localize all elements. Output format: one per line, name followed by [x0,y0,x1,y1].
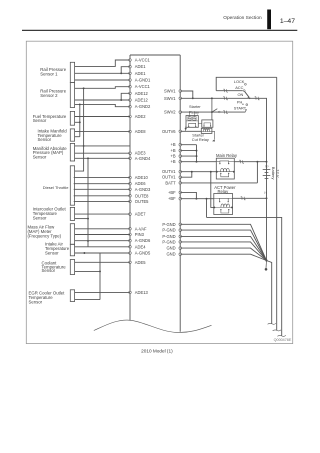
label START [234,105,247,110]
switch arm [245,91,250,98]
svg-text:ADE12: ADE12 [135,91,149,96]
wire intake air signal to ADE4 [75,246,130,248]
ECU pin ADE2 (left, y=116.5) [129,114,146,119]
svg-text:A-GND4: A-GND4 [135,156,151,161]
svg-text:PIN3: PIN3 [135,232,145,237]
ground bus V6 [99,253,101,300]
ECU pin A-GND1 (left, y=80.0) [129,78,151,83]
wire diesel throttle 2 [74,183,130,185]
ECU pin +BF (right, y=198.7) [168,196,181,201]
battery B1 plates [263,170,271,179]
ECU pin ADE12 (left, y=93.3) [129,91,149,96]
ECU pin A-GND6 (left, y=240.7) [129,238,151,243]
svg-text:ADE8: ADE8 [135,129,146,134]
svg-text:ADE6: ADE6 [135,181,146,186]
cut relay coil [201,129,212,132]
svg-text:Sensor: Sensor [45,250,59,255]
junction V2 fuel temp ground [79,121,81,123]
svg-text:P-GND: P-GND [162,239,175,244]
battery plus label [265,164,269,168]
ECU pin OUTV1 (right, y=177.2) [162,175,182,180]
label ACC [235,85,243,90]
ground junction point [265,259,267,261]
wire diesel throttle 4 [74,195,130,197]
wire RP2 signal to ADE12 pins [75,99,130,101]
wire BATT riser [256,162,258,183]
wire +B stub y=144.7 [180,144,196,146]
ECU pin +B (right, y=144.7) [170,142,181,147]
header rule [22,29,297,31]
wire RP1 signal to ADE1 pins [75,72,130,74]
wire ground y=254.2 [180,254,266,260]
svg-text:ADE13: ADE13 [135,290,149,295]
wire ground y=241.9 [180,242,266,261]
junction +BF [195,198,197,200]
wire ON to battery trunk [251,97,267,162]
svg-text:P-GND: P-GND [162,228,175,233]
svg-text:Sensor: Sensor [42,268,56,273]
junction on A-GND5 wire [83,252,85,254]
svg-text:ADE7: ADE7 [135,212,146,217]
junction V6 coolant ground [99,270,101,272]
wire ACC feed with connector [216,89,243,92]
cut relay coil ground arrow [212,139,215,141]
ECU pin OUTV6 (right, y=131.3) [162,129,182,134]
EGR cooler outlet temp sensor connector [70,290,74,302]
wire +B stub y=150.6 [180,150,196,152]
contact ON [249,98,251,100]
svg-text:+B: +B [170,154,175,159]
svg-text:LOCK: LOCK [234,79,245,84]
ECU box right edge [179,55,181,332]
svg-text:A-GND5: A-GND5 [135,251,151,256]
ECU pin +B (right, y=150.6) [170,148,181,153]
ECU pin A-VCC1 (left, y=86.7) [129,84,151,89]
svg-text:Q000478E: Q000478E [274,338,292,342]
ECU pin ADE5 (left, y=262.3) [129,260,146,265]
starter relay coil b [193,117,196,121]
header page number 1-47 [280,18,295,25]
wire +BF upper jog [180,192,196,198]
svg-text:ADE4: ADE4 [135,244,146,249]
svg-text:P-GND: P-GND [162,222,175,227]
ECU pin +B (right, y=161.7) [170,159,181,164]
analog ground bus V2 [79,104,81,136]
ECU pin ADE10 (left, y=177.6) [129,175,149,180]
wire +BF lower [180,198,214,200]
ECU pin A-VAF (left, y=228.8) [129,226,147,231]
label Starter Cut Relay [192,133,209,142]
svg-text:ADE10: ADE10 [135,175,149,180]
svg-text:ADE12: ADE12 [135,98,149,103]
ECU pin +B (right, y=156.1) [170,154,181,159]
fuel temperature sensor connector [70,111,74,125]
diagram cut wavy line [94,320,212,332]
svg-text:(+): (+) [265,164,269,168]
wire OUTV1 lower jog [180,172,192,178]
wire main relay output [234,160,266,163]
wire EGR signal to ADE13 [75,291,130,293]
sensor ground bus V5 [87,158,89,247]
ECU pin A-GND3 (left, y=189.3) [129,187,151,192]
ECU pin BATT (right, y=182.9) [165,180,181,185]
wire RP1 supply to A-VCC1 [75,60,130,66]
svg-text:P-GND: P-GND [162,234,175,239]
svg-text:1–47: 1–47 [280,18,295,25]
starter switch blade [212,109,220,113]
battery minus label [264,190,267,194]
ignition switch frame [216,77,277,90]
caption 2010 Model (1) [141,348,173,353]
wire SWV2 to START [180,111,245,114]
svg-text:Cut Relay: Cut Relay [192,137,209,142]
ECU pin GND (right, y=248.1) [166,246,181,251]
starter relay contact [188,123,196,127]
wire intake air ground to A-GND5 [75,252,130,254]
starter cut relay coil box [201,128,212,133]
ECU pin P-GND (right, y=230.1) [162,228,181,233]
svg-text:A-GND1: A-GND1 [135,78,151,83]
svg-text:GND: GND [166,252,175,257]
wire RP2 supply to A-VCC1 [75,87,130,89]
junction +B bus y=156.1 [196,155,198,157]
svg-text:OUTV6: OUTV6 [162,129,176,134]
wire MAP signal to ADE3 [75,152,130,154]
ECU pin A-GND4 (left, y=158.3) [129,156,151,161]
wire +B stub y=161.7 [180,161,196,163]
svg-text:ADE2: ADE2 [135,114,146,119]
wire OUTV6 branch [185,126,187,131]
label Manifold Absolute Pressure (MAP) Sensor [33,146,68,160]
ECU pin A-GND5 (left, y=253.0) [129,251,151,256]
cut relay contact symbol [203,123,211,127]
svg-text:Sensor: Sensor [38,137,52,142]
svg-text:A-VCC1: A-VCC1 [135,84,151,89]
svg-text:OUTV1: OUTV1 [162,169,176,174]
cut tick ground trunk [268,323,276,324]
svg-text:OUTV1: OUTV1 [162,175,176,180]
ECU pin P-GND (right, y=224.3) [162,222,181,227]
intake manifold temp sensor connector [70,129,74,141]
wire cut relay coil out [212,131,215,139]
coolant temp sensor connector [70,260,74,275]
label Rail Pressure Sensor 2 [40,88,66,98]
starter relay coil a [188,117,191,121]
wire ACT output [233,197,267,200]
wire MAF to PIN3 [75,234,130,236]
svg-text:ACC: ACC [235,85,243,90]
label Coolant Temperature Sensor [42,261,67,274]
svg-text:Battery: Battery [271,167,276,180]
wire ACT lower to right [207,217,282,335]
ECU pin ADE8 (left, y=131.6) [129,129,146,134]
ECU pin ADE7 (left, y=214.1) [129,212,146,217]
wire intake manifold signal to ADE8 [75,131,130,133]
svg-text:A-GND6: A-GND6 [135,238,151,243]
main relay K1 box [216,158,234,179]
label Intake Manifold Temperature Sensor [38,128,68,142]
svg-text:OUTE5: OUTE5 [135,199,149,204]
battery name text [271,167,280,180]
wire MAF output to A-VAF [75,228,130,230]
svg-text:SWV1: SWV1 [164,89,176,94]
junction main out / BATT riser [256,161,258,163]
wire ground y=224.3 [180,224,266,260]
MAF meter connector [70,224,74,245]
ECU pin ADE1 (left, y=73.3) [129,71,146,76]
svg-text:(Frequency Type): (Frequency Type) [28,233,62,238]
analog supply bus V1 [75,88,84,171]
starter cut relay contact box [202,120,213,127]
ECU pin OUTE5 (left, y=201.4) [129,199,149,204]
wire MAF ground to A-GND6 [75,240,130,242]
diesel throttle connector [70,166,74,205]
battery trunk wire [266,162,268,261]
svg-text:A-VCC1: A-VCC1 [135,58,151,63]
wire fuel temp signal to ADE2 [75,116,130,118]
ECU box left edge [129,55,131,321]
label Intercooler Outlet Temperature Sensor [33,207,67,221]
MAP sensor connector [70,143,74,161]
label ACT Power Relay [214,185,236,194]
label Diesel Throttle [43,185,69,190]
ACT relay contact [214,198,233,202]
junction V2 top [79,103,81,105]
wire +B stub y=156.1 [180,155,196,157]
svg-text:+B: +B [170,142,175,147]
OUTV1 feed to ACT relay [210,171,214,208]
svg-text:GND: GND [166,246,175,251]
cut tick ACT trunk [277,335,285,336]
svg-text:ADE5: ADE5 [135,260,146,265]
junction +B bus y=150.6 [196,150,198,152]
junction V1 on MAP supply wire [83,145,85,147]
header black bar [267,10,271,30]
wire coolant signal to ADE5 [75,261,130,263]
header text Operation Section [223,15,262,21]
wire RP1 ground to A-GND1 [75,79,130,81]
ECU pin P-GND (right, y=241.9) [162,239,181,244]
svg-text:Sensor: Sensor [33,155,47,160]
svg-text:OUTE8: OUTE8 [135,193,149,198]
ground stub to body [265,261,268,271]
wire ground y=248.1 [180,248,266,260]
diagram border frame [26,41,292,343]
wire intercooler ground stub [75,218,88,220]
junction V5 on A-GND6 wire [87,240,89,242]
junction SWV2 switch [211,111,213,113]
wire ground y=230.1 [180,230,266,260]
svg-text:Sensor: Sensor [33,118,47,123]
wire starter relay to cut relay contact [198,123,202,125]
wire cut relay contact feed [211,97,213,120]
svg-text:+B: +B [170,159,175,164]
label LOCK [234,79,245,84]
ECU pin +BF (right, y=192.4) [168,190,181,195]
label Fuel Temperature Sensor [33,114,67,123]
svg-text:A-VAF: A-VAF [135,226,147,231]
wire branch to upper ADE12 pin [121,93,130,100]
ECU pin ADE3 (left, y=153.2) [129,151,146,156]
wire diesel throttle 5 [74,200,130,202]
label Main Relay [216,153,238,158]
main relay coil lower contact [220,173,229,177]
starter relay U1 box [186,116,198,128]
wire BATT [180,182,257,184]
wire ACT coil lead [206,199,208,218]
ECU pin ADE4 (left, y=246.8) [129,244,146,249]
svg-text:Sensor: Sensor [29,299,43,304]
wire diesel throttle 3 [74,188,130,190]
figure code Q000478E [274,338,292,342]
ECU pin GND (right, y=254.2) [166,252,181,257]
contact START [246,104,248,106]
wire OUTV6 to cut relay coil [180,130,201,132]
+B bus [196,145,198,162]
svg-text:START: START [234,105,247,110]
svg-text:ON: ON [238,92,244,97]
svg-text:A-GND2: A-GND2 [135,104,151,109]
main relay contact [216,161,234,164]
cut tick ignition trunk [273,330,281,331]
ECU pin SWV1 (right, y=98.3) [164,96,181,101]
junction ACT coil lead [206,198,208,200]
ECU pin OUTV1 (right, y=171.7) [162,169,182,174]
junction on ADE1 wire [120,72,122,74]
svg-text:SWV2: SWV2 [164,110,176,115]
svg-text:2010 Model (1): 2010 Model (1) [141,348,173,353]
contact LOCK [245,83,247,85]
starter relay coil feeds [190,112,195,117]
label Starter Relay [189,104,201,114]
wire intake manifold ground stub [75,136,80,138]
wire ground trunk [267,261,272,324]
svg-text:+B: +B [170,148,175,153]
junction V1 top on RP2 supply wire [83,87,85,89]
svg-text:Operation Section: Operation Section [223,15,262,21]
ACT relay coil [213,204,233,208]
wire MAP supply [75,145,130,147]
wire branch to upper ADE1 pin [121,67,130,74]
wire SWV1 jog [180,91,193,98]
wire OUTV1 upper [180,171,216,173]
junction V5 intercooler ground [87,218,89,220]
ECU pin SWV2 (right, y=112.1) [164,110,181,115]
svg-text:+BF: +BF [168,190,176,195]
junction V5 top on A-GND4 wire [87,157,89,159]
junction main out / battery trunk [266,161,268,163]
wire +B bus to main relay [197,161,217,163]
wire ground y=236.4 [180,236,266,260]
ECU pin ADE13 (left, y=292.4) [129,290,149,295]
junction ACT out / battery trunk [266,197,268,199]
label Mass Air Flow (MAF) Meter (Frequency Type) [28,225,62,239]
ACT power relay K2 box [214,194,233,215]
junction OUTV6 branch [185,128,187,130]
label Intake Air Temperature Sensor [45,242,70,256]
rail pressure sensor 2 connector [70,83,74,108]
junction +B bus y=161.7 [196,161,198,163]
ECU pin ADE12 (left, y=100.0) [129,98,149,103]
svg-text:+BF: +BF [168,196,176,201]
wire coolant ground stub [75,270,100,272]
rail pressure sensor 1 connector [70,62,74,82]
wire diesel throttle 1 [74,177,130,179]
svg-text:Sensor: Sensor [33,215,47,220]
svg-text:Sensor 1: Sensor 1 [40,72,58,77]
ECU box top edge [130,54,180,56]
label ON [238,92,244,97]
wire RP2 ground to A-GND2 [75,104,130,106]
label Rail Pressure Sensor 1 [40,67,66,77]
wire MAP ground to A-GND4 [75,157,130,159]
ECU pin SWV1 (right, y=91.0) [164,89,181,94]
label PH [237,100,244,106]
ECU pin ADE1 (left, y=66.7) [129,64,146,69]
ECU pin ADE6 (left, y=183.7) [129,181,146,186]
svg-text:BATT: BATT [165,180,176,185]
junction SWV1 [192,97,194,99]
svg-text:Diesel Throttle: Diesel Throttle [43,185,69,190]
junction on ADE12 wire [120,99,122,101]
ECU pin A-VCC1 (left, y=60.0) [129,58,151,63]
main relay coil [216,168,235,172]
svg-text:SWV1: SWV1 [164,96,176,101]
wire START rise [245,109,247,112]
intake air temp sensor connector [70,244,74,256]
ECU pin A-GND2 (left, y=106.7) [129,104,151,109]
ECU pin P-GND (right, y=236.4) [162,234,181,239]
svg-text:(-): (-) [264,190,267,194]
svg-text:A-GND3: A-GND3 [135,187,151,192]
contact ACC [243,90,245,92]
ignition common trunk [276,77,278,330]
svg-text:Sensor 2: Sensor 2 [40,93,58,98]
svg-text:12 V: 12 V [275,169,280,178]
ECU pin OUTE8 (left, y=195.8) [129,193,149,198]
wire intercooler signal to ADE7 [75,213,130,215]
svg-text:Main Relay: Main Relay [216,153,238,158]
junction OUTV1 [191,171,193,173]
wire fuel temp ground stub [75,121,80,123]
intercooler outlet temp sensor connector [70,207,74,220]
svg-text:ADE1: ADE1 [135,64,146,69]
wire SWV1 to ON contact [180,97,249,100]
ECU pin PIN3 (left, y=234.5) [129,232,145,237]
wire EGR ground stub [75,299,100,301]
svg-text:ADE1: ADE1 [135,71,146,76]
label EGR Cooler Outlet Temperature Sensor [29,291,66,305]
ACT relay lower contact [220,209,229,213]
